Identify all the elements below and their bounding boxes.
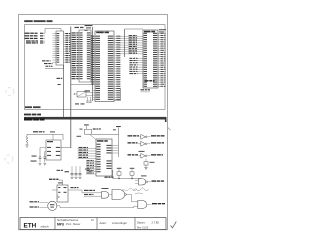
pullup R3	[130, 168, 135, 179]
resistor R4	[144, 159, 155, 170]
net label res out	[105, 177, 108, 178]
net label enable	[30, 206, 48, 207]
label +5V on wire	[50, 131, 55, 132]
title divider 3	[134, 218, 136, 230]
wire reset out	[113, 170, 141, 179]
bus rail 2	[92, 27, 94, 101]
title autor	[100, 221, 128, 225]
net label sys reset	[152, 180, 157, 181]
wire osc out	[57, 206, 138, 208]
net labels U4 lower left	[129, 58, 143, 74]
svg-text:Rev: 0.100: Rev: 0.100	[137, 227, 149, 229]
wire q to gate	[82, 190, 102, 193]
net label below U1	[57, 78, 63, 85]
pullup R2	[117, 168, 122, 179]
net label HB bus 3	[25, 38, 30, 39]
logo ETH zurich	[24, 223, 49, 230]
label after caps	[65, 171, 70, 172]
wire into U5	[62, 134, 64, 140]
IC U4 memory interface	[143, 30, 166, 88]
label Host Processor Control	[24, 20, 52, 22]
svg-text:A.Gunzinger: A.Gunzinger	[112, 221, 127, 225]
svg-text:Proz. Steuer: Proz. Steuer	[66, 222, 81, 226]
capacitor C1	[39, 148, 42, 163]
handwritten annotation 8MHz	[133, 188, 149, 194]
wire U8 q out	[68, 187, 82, 190]
capacitor C5	[85, 169, 91, 174]
component small box S1	[85, 129, 92, 134]
wires U5 left pins	[40, 148, 46, 152]
label 74F above gate	[141, 175, 147, 176]
ground C2	[43, 163, 46, 165]
A/D and address bus lines	[24, 117, 166, 120]
label C14	[31, 161, 37, 162]
inverter U7d row	[128, 153, 164, 158]
text 74LS inside U4	[145, 80, 149, 82]
svg-text:Schaltschema: Schaltschema	[57, 219, 79, 222]
svg-text:Autor:: Autor:	[100, 221, 107, 225]
label Timing Control	[25, 106, 41, 108]
wire into U5 pin2	[52, 134, 54, 140]
net label below U4	[141, 89, 151, 92]
net label clk out	[152, 203, 157, 204]
svg-text:2.7.85: 2.7.85	[152, 221, 160, 225]
bus rail vertical	[70, 27, 72, 149]
net labels U1 lower left	[42, 60, 53, 66]
label top right corner	[159, 29, 166, 32]
label 74F08	[102, 188, 109, 189]
title divider 2	[96, 218, 98, 230]
wires address lines to U4	[120, 35, 143, 54]
capacitor C2	[44, 152, 47, 163]
U3 lower left stubs	[93, 91, 95, 100]
label address bus	[24, 118, 32, 120]
inverter U7c row	[128, 141, 165, 146]
net label HLDA	[26, 42, 31, 43]
net label 16MHz	[30, 201, 49, 202]
bus end hook	[165, 117, 167, 122]
section box Host Processor Control	[25, 25, 166, 110]
power +5V pullup at U6 rail	[92, 126, 121, 157]
checkmark annotation	[171, 222, 177, 228]
labels +5V near U3 top	[85, 25, 93, 31]
oscillator X1	[48, 201, 57, 210]
decoupling capacitors C6-C8	[70, 166, 81, 178]
sheet border frame	[19, 15, 168, 230]
IC U5 clock generator	[46, 140, 61, 160]
second gate input	[84, 194, 102, 196]
handwritten annotation 2	[121, 188, 137, 191]
wire U2 bottom	[71, 84, 91, 86]
gate U9c	[138, 201, 152, 209]
border tick mark	[168, 128, 171, 131]
title block frame	[20, 218, 166, 230]
wire reset	[27, 133, 63, 135]
label A/D bus	[24, 114, 31, 116]
U3 right pins	[114, 36, 120, 100]
label L5	[32, 156, 37, 157]
net label reset line	[93, 128, 96, 129]
wire U1 bottom	[45, 65, 64, 69]
svg-text:ETH: ETH	[24, 223, 37, 230]
punch hole upper	[6, 88, 14, 96]
IC U8 flip-flop	[57, 182, 68, 202]
label delay line	[57, 170, 61, 171]
wire top to U4	[125, 28, 144, 30]
label 74LS04	[139, 151, 145, 152]
gate U7a	[135, 179, 151, 185]
svg-text:MPU: MPU	[57, 222, 65, 226]
net label cpu clk	[84, 190, 89, 191]
gate U9a	[102, 192, 113, 199]
wire U5 clk out	[61, 147, 71, 149]
wire to U1 clock	[45, 29, 61, 34]
net label HB bus 2	[25, 35, 30, 36]
gate U9b	[112, 190, 138, 202]
svg-text:zürich: zürich	[41, 224, 49, 228]
IC U3 CPU	[91, 31, 114, 102]
svg-text:Datum:: Datum:	[137, 221, 146, 225]
net label reset in	[33, 131, 38, 132]
crystal circuit X2	[74, 90, 93, 104]
bus drop U1	[63, 65, 65, 117]
inverter U7b row	[128, 134, 165, 139]
ground C1	[39, 163, 42, 165]
IC U2 bus interface	[72, 27, 93, 82]
title datum	[137, 221, 159, 230]
wire U3 corner	[114, 88, 121, 101]
net label HOLD	[26, 40, 31, 41]
title MPU	[57, 222, 81, 226]
punch hole lower	[5, 155, 13, 163]
power +5V a	[80, 124, 89, 129]
wires lower pins U6	[86, 160, 96, 174]
title divider 1	[54, 218, 56, 230]
net label osc clk	[49, 179, 63, 190]
bus rail 3	[124, 29, 126, 57]
power +5V b	[77, 134, 96, 139]
IC U6 timing generator	[96, 139, 119, 176]
net label HB bus 1	[25, 33, 30, 34]
resistor R1	[26, 134, 28, 145]
IC U1 latch	[53, 31, 71, 65]
ground R1	[25, 145, 28, 147]
wires control bus to U6	[78, 147, 97, 159]
